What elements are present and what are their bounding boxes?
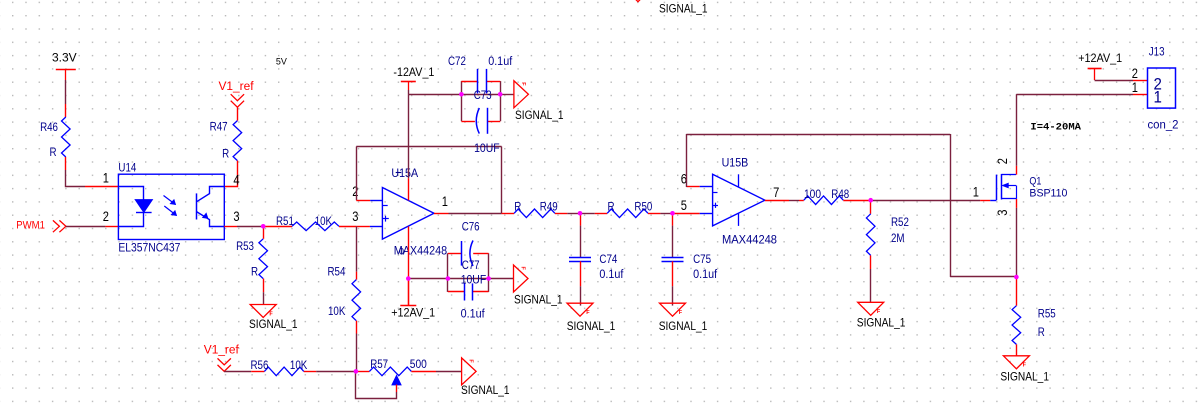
svg-text:Q1: Q1: [1029, 175, 1041, 187]
svg-text:U15A: U15A: [391, 168, 418, 180]
svg-text:R49: R49: [540, 201, 558, 213]
svg-text:R55: R55: [1038, 309, 1056, 321]
svg-text:BSP110: BSP110: [1029, 188, 1067, 200]
svg-text:SIGNAL_1: SIGNAL_1: [659, 2, 708, 16]
svg-text:2: 2: [995, 158, 1010, 164]
svg-text:V1_ref: V1_ref: [219, 81, 255, 93]
svg-text:SIGNAL_1: SIGNAL_1: [857, 316, 906, 330]
svg-text:SIGNAL_1: SIGNAL_1: [461, 383, 510, 397]
svg-text:3: 3: [233, 209, 239, 224]
svg-text:con_2: con_2: [1148, 119, 1179, 131]
svg-text:C72: C72: [448, 56, 466, 68]
svg-text:R47: R47: [210, 122, 228, 134]
svg-text:1: 1: [973, 184, 979, 199]
svg-text:0.1uf: 0.1uf: [488, 56, 513, 68]
svg-text:0.1uf: 0.1uf: [461, 308, 486, 320]
svg-text:C73: C73: [474, 90, 492, 102]
svg-text:1: 1: [1154, 88, 1162, 107]
svg-text:1: 1: [103, 170, 109, 185]
svg-text:SIGNAL_1: SIGNAL_1: [514, 293, 563, 307]
svg-text:2M: 2M: [891, 233, 905, 245]
svg-text:R: R: [222, 148, 229, 160]
svg-text:-12AV_1: -12AV_1: [393, 67, 434, 79]
svg-text:U14: U14: [118, 162, 136, 174]
svg-text:R: R: [608, 201, 615, 213]
svg-text:I=4-20MA: I=4-20MA: [1030, 123, 1081, 134]
svg-text:R: R: [251, 266, 258, 278]
svg-text:SIGNAL_1: SIGNAL_1: [659, 319, 708, 333]
svg-text:o: o: [399, 246, 404, 258]
svg-text:1: 1: [1132, 80, 1138, 95]
svg-text:R56: R56: [251, 360, 269, 372]
svg-text:SIGNAL_1: SIGNAL_1: [1000, 369, 1049, 383]
svg-text:+12AV_1: +12AV_1: [1078, 53, 1122, 65]
svg-text:R: R: [49, 147, 56, 159]
svg-text:R46: R46: [40, 122, 58, 134]
svg-text:MAX44248: MAX44248: [722, 235, 777, 247]
svg-text:10UF: 10UF: [474, 143, 500, 155]
svg-text:R: R: [514, 201, 521, 213]
svg-text:C74: C74: [599, 254, 617, 266]
svg-text:10K: 10K: [290, 360, 308, 372]
svg-text:100: 100: [804, 189, 821, 201]
svg-text:500: 500: [410, 359, 427, 371]
svg-text:10UF: 10UF: [461, 274, 487, 286]
svg-text:V1_ref: V1_ref: [204, 345, 240, 357]
svg-text:2: 2: [103, 209, 109, 224]
svg-text:1: 1: [442, 194, 448, 209]
svg-text:0.1uf: 0.1uf: [599, 269, 624, 281]
svg-text:5V: 5V: [276, 57, 287, 67]
svg-text:R57: R57: [370, 359, 388, 371]
svg-text:0.1uf: 0.1uf: [693, 269, 718, 281]
svg-text:PWM1: PWM1: [16, 220, 45, 232]
svg-text:R50: R50: [634, 201, 652, 213]
svg-text:J13: J13: [1149, 47, 1165, 59]
svg-text:R52: R52: [891, 217, 909, 229]
svg-text:4: 4: [233, 172, 240, 187]
svg-text:10K: 10K: [328, 306, 346, 318]
svg-text:3: 3: [352, 209, 358, 224]
svg-text:U15B: U15B: [722, 158, 749, 170]
svg-text:+12AV_1: +12AV_1: [391, 308, 435, 320]
svg-text:C76: C76: [462, 222, 480, 234]
svg-text:7: 7: [773, 185, 779, 200]
svg-text:SIGNAL_1: SIGNAL_1: [515, 108, 564, 122]
svg-text:R: R: [1038, 327, 1045, 339]
svg-text:5: 5: [681, 198, 687, 213]
svg-text:3.3V: 3.3V: [52, 51, 77, 65]
svg-text:R54: R54: [327, 266, 345, 278]
svg-text:C75: C75: [693, 254, 711, 266]
svg-text:R48: R48: [831, 189, 849, 201]
svg-text:2: 2: [352, 184, 358, 199]
svg-text:SIGNAL_1: SIGNAL_1: [567, 319, 616, 333]
svg-text:EL357NC437: EL357NC437: [118, 242, 180, 254]
svg-text:R53: R53: [236, 241, 254, 253]
svg-text:SIGNAL_1: SIGNAL_1: [249, 317, 298, 331]
svg-text:C77: C77: [462, 260, 480, 272]
svg-text:2: 2: [1132, 66, 1138, 81]
svg-text:3: 3: [995, 210, 1010, 216]
